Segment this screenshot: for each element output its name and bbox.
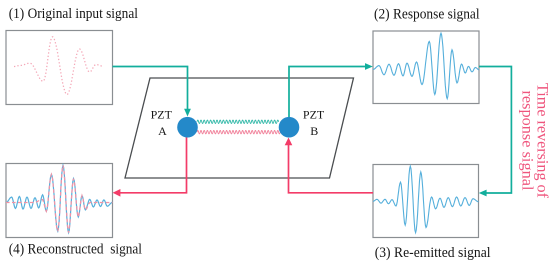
svg-text:(3) Re-emitted signal: (3) Re-emitted signal xyxy=(375,245,491,261)
svg-text:A: A xyxy=(158,124,167,138)
svg-text:response signal: response signal xyxy=(519,91,536,191)
svg-text:PZT: PZT xyxy=(303,108,325,122)
svg-text:(2) Response signal: (2) Response signal xyxy=(374,6,480,22)
svg-text:B: B xyxy=(310,124,318,138)
svg-text:(1) Original input signal: (1) Original input signal xyxy=(9,6,138,22)
svg-text:(4) Reconstructed signal: (4) Reconstructed signal xyxy=(9,241,142,257)
svg-text:PZT: PZT xyxy=(151,108,173,122)
